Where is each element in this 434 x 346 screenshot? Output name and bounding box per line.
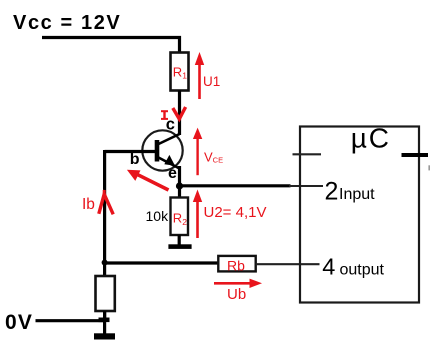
resistor R1 <box>171 53 189 91</box>
svg-text:µC: µC <box>351 123 391 154</box>
svg-text:Ub: Ub <box>227 286 246 303</box>
node junction marker on 0V wire <box>99 318 110 323</box>
svg-text:VCE: VCE <box>204 150 223 165</box>
svg-text:Rb: Rb <box>227 258 245 274</box>
svg-text:output: output <box>340 261 385 278</box>
transistor Q1 collector lead <box>158 134 180 145</box>
svg-text:Vcc = 12V: Vcc = 12V <box>13 12 121 34</box>
svg-text:e: e <box>168 165 177 182</box>
wire 0V <box>36 319 105 322</box>
arrow Vce <box>196 137 198 175</box>
wire base <box>105 150 155 153</box>
ground bottom <box>94 333 115 339</box>
arrow U1 <box>198 62 201 99</box>
ground below R2 <box>168 244 191 249</box>
resistor Rb <box>218 256 255 272</box>
svg-text:10k: 10k <box>146 208 170 224</box>
stray mark right edge <box>428 165 430 170</box>
label I <box>161 111 168 120</box>
svg-text:Ib: Ib <box>82 196 95 213</box>
arrow U2 <box>196 200 199 238</box>
svg-text:2: 2 <box>325 177 339 205</box>
svg-text:b: b <box>130 151 140 168</box>
svg-text:Input: Input <box>339 186 375 203</box>
node emitter junction dot <box>176 182 183 189</box>
arrow base current (big red) <box>134 173 169 190</box>
pin tick top left <box>293 153 322 155</box>
pin 2 tick <box>289 185 323 187</box>
transistor Q1 emitter arrowhead <box>164 155 175 166</box>
wire emitter to pin 2 <box>180 184 291 187</box>
svg-text:4: 4 <box>322 254 335 280</box>
svg-text:0V: 0V <box>5 311 33 334</box>
arrow I (red chevron down) <box>173 107 186 119</box>
svg-text:U1: U1 <box>203 74 220 89</box>
wire emitter down <box>178 166 181 198</box>
transistor Q1 base bar <box>155 140 160 162</box>
resistor R3 (bottom, unlabelled) <box>96 276 115 311</box>
wire Vcc top rail <box>42 38 180 53</box>
wire R2 to ground <box>178 235 181 245</box>
wire R1 to collector <box>178 91 181 136</box>
arrow Ub <box>214 282 252 285</box>
wire resistor to ground <box>103 311 106 334</box>
node junction dot left <box>102 260 108 266</box>
pin tick top right <box>402 153 429 157</box>
IC U2 microcontroller box <box>300 127 419 303</box>
wire Rb to pin 4 <box>256 263 320 265</box>
resistor R2 <box>171 198 189 236</box>
svg-text:U2= 4,1V: U2= 4,1V <box>204 204 267 221</box>
transistor Q1 body <box>142 130 182 170</box>
wire left rail down <box>103 150 106 322</box>
transistor Q1 emitter lead <box>158 157 179 168</box>
arrow Ib <box>99 194 113 214</box>
wire junction to Rb <box>105 261 219 264</box>
